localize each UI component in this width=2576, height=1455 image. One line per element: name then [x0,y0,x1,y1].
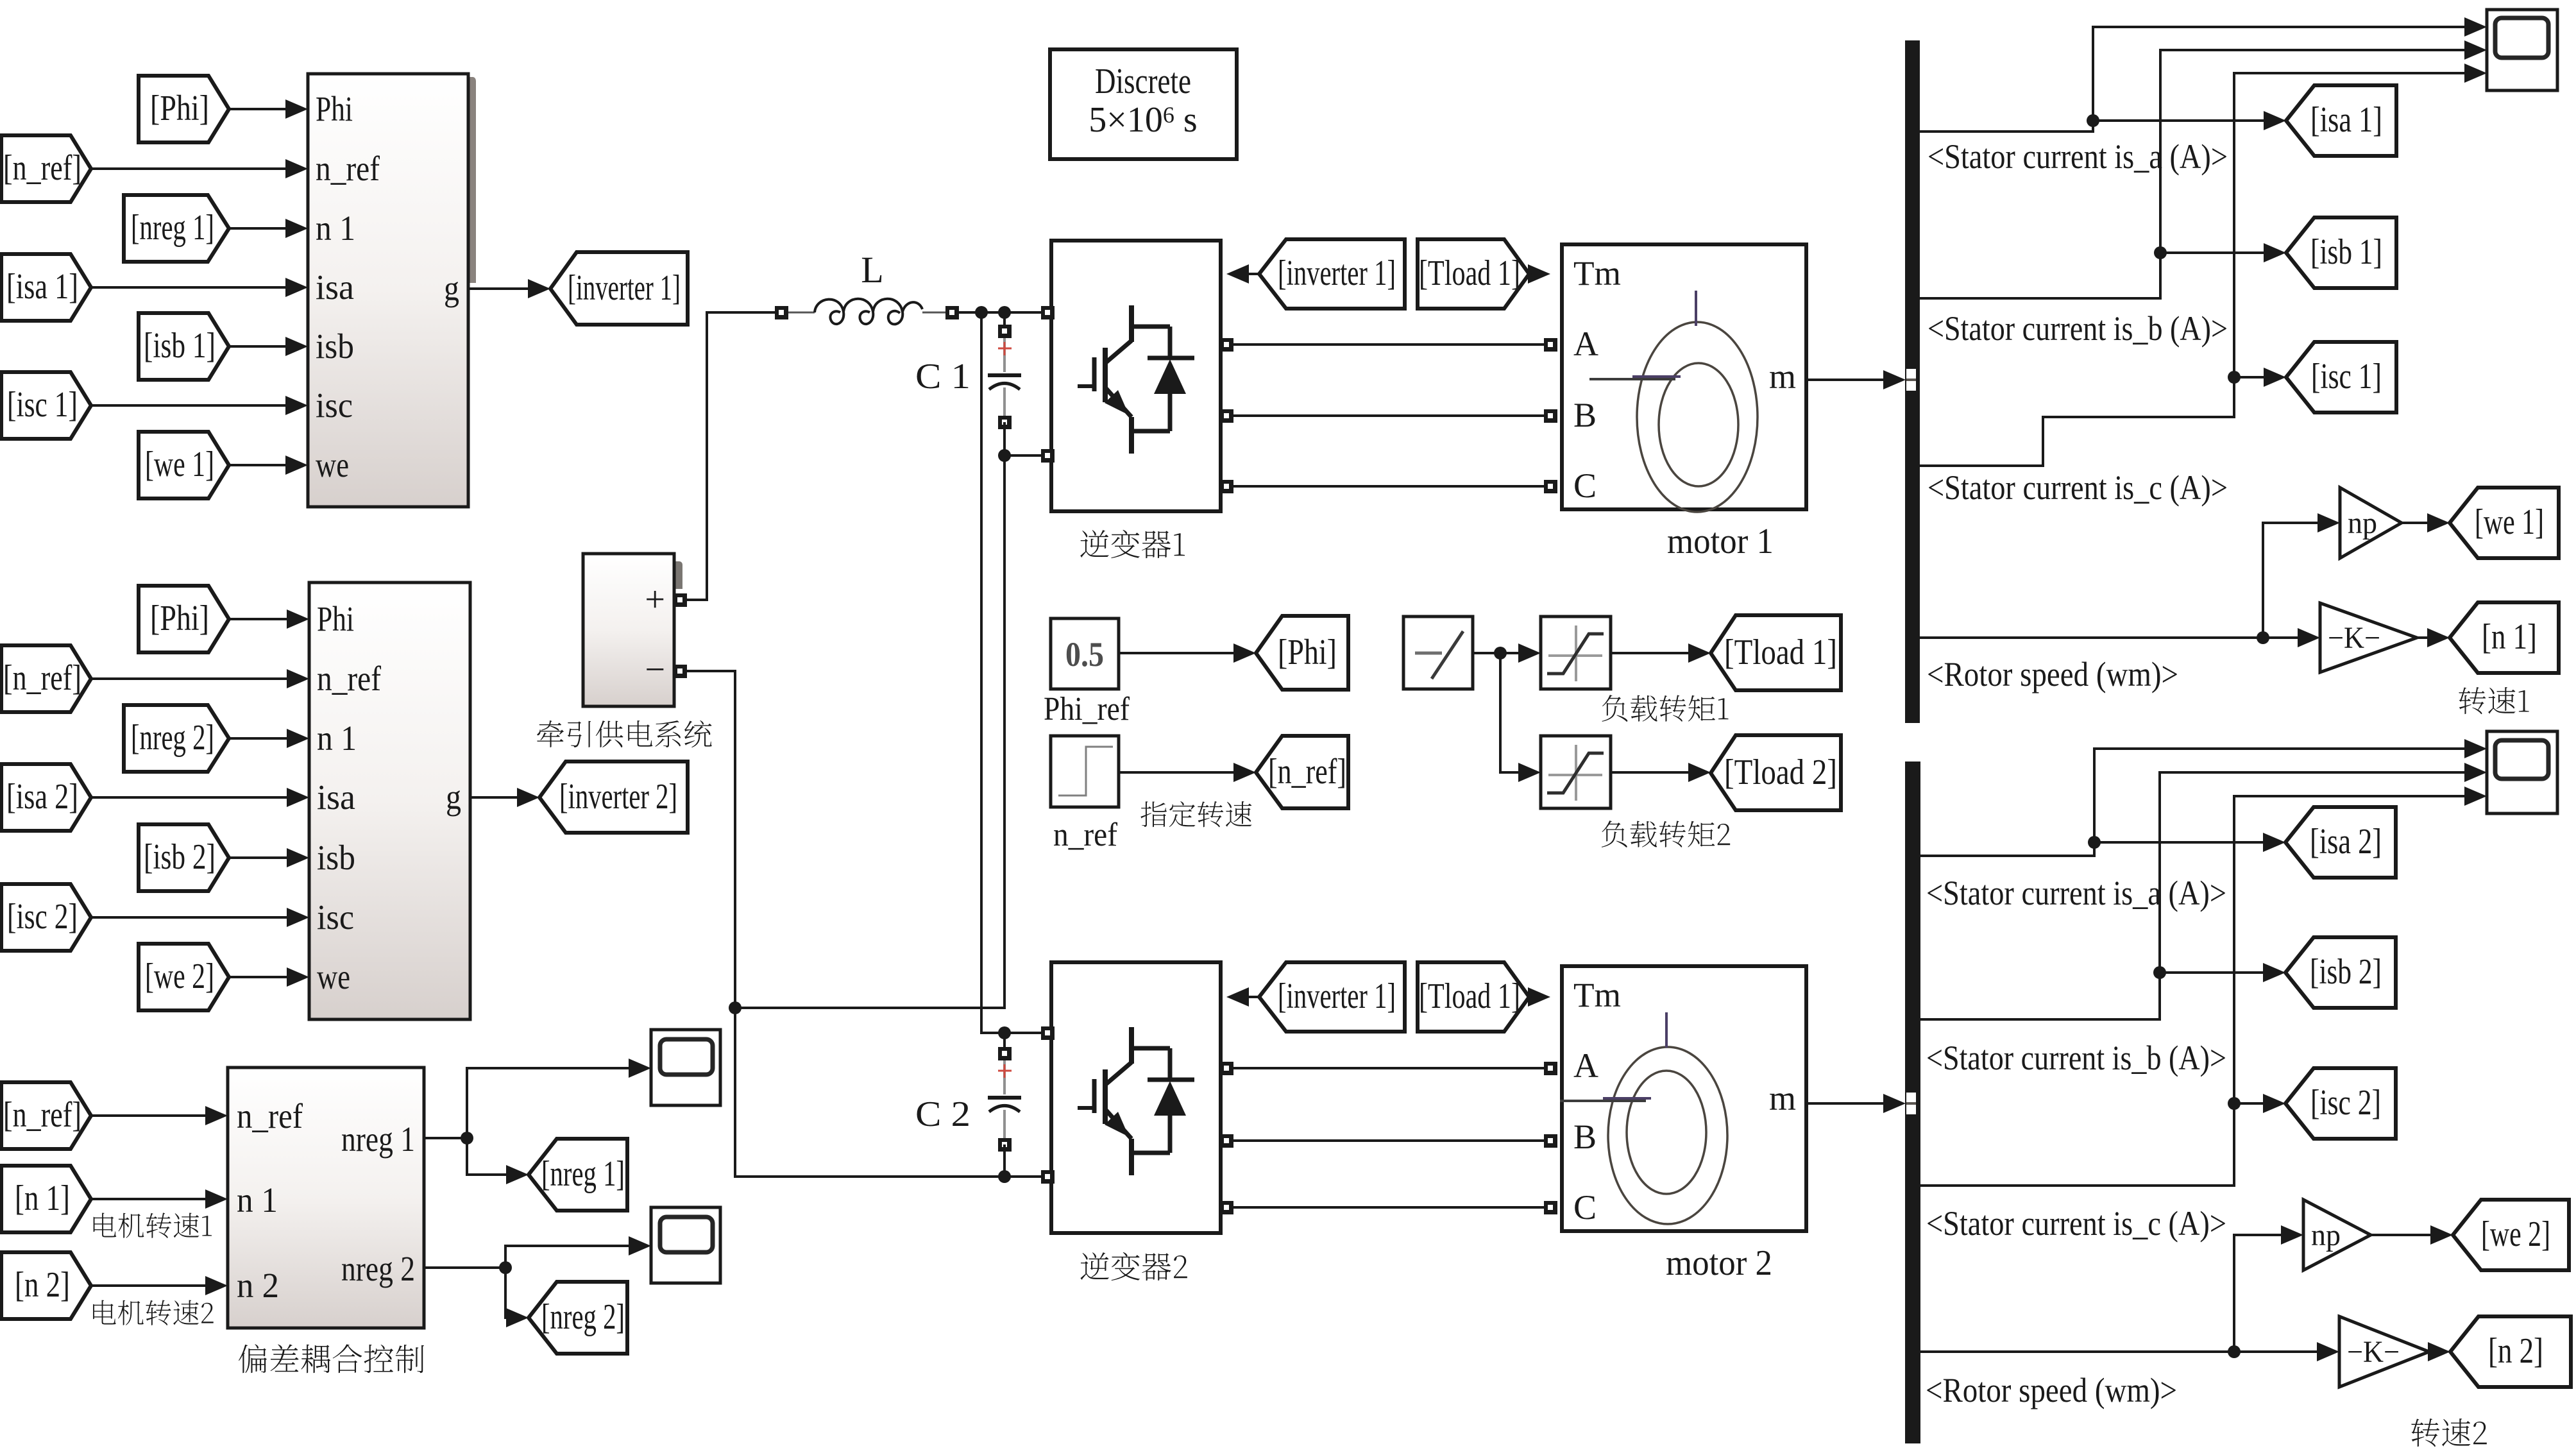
svg-text:n 2: n 2 [237,1266,279,1305]
svg-text:[isa 1]: [isa 1] [6,267,78,307]
svg-text:[isb 1]: [isb 1] [2310,232,2382,272]
svg-text:motor 2: motor 2 [1666,1243,1772,1283]
svg-text:5×106 s: 5×106 s [1089,100,1197,140]
svg-text:n_ref: n_ref [316,149,380,188]
svg-text:n_ref: n_ref [317,659,382,698]
svg-text:we: we [317,957,350,996]
svg-text:isb: isb [317,838,355,877]
svg-text:Phi: Phi [316,89,353,128]
svg-text:+: + [645,580,665,620]
svg-text:nreg 1: nreg 1 [341,1119,415,1159]
svg-text:Discrete: Discrete [1095,62,1191,101]
svg-text:g: g [446,778,461,817]
svg-text:[isb 1]: [isb 1] [144,326,216,366]
svg-text:np: np [2348,506,2377,540]
svg-text:<Stator current is_a (A)>: <Stator current is_a (A)> [1926,874,2226,912]
svg-text:L: L [861,249,883,291]
svg-text:Phi_ref: Phi_ref [1044,691,1130,727]
svg-text:<Stator current is_c (A)>: <Stator current is_c (A)> [1928,468,2228,507]
svg-text:n_ref: n_ref [237,1096,303,1136]
svg-text:C 2: C 2 [915,1094,970,1134]
svg-text:we: we [316,445,349,484]
svg-text:[n 1]: [n 1] [15,1178,70,1218]
svg-text:[inverter 1]: [inverter 1] [568,268,681,308]
svg-text:−: − [645,650,665,690]
svg-text:[n 2]: [n 2] [2488,1331,2543,1371]
svg-text:[n_ref]: [n_ref] [1268,752,1346,792]
svg-text:[isa 1]: [isa 1] [2310,100,2382,140]
svg-text:<Stator current is_b (A)>: <Stator current is_b (A)> [1928,309,2228,348]
svg-text:isb: isb [316,327,354,366]
svg-text:0.5: 0.5 [1065,635,1104,674]
svg-text:[Phi]: [Phi] [150,89,209,128]
svg-text:[Tload 1]: [Tload 1] [1724,633,1837,672]
svg-text:isa: isa [317,778,355,817]
svg-text:n 1: n 1 [237,1180,278,1220]
svg-text:isc: isc [316,386,353,425]
svg-text:[nreg 2]: [nreg 2] [541,1297,625,1337]
svg-text:<Stator current is_a (A)>: <Stator current is_a (A)> [1928,137,2228,176]
svg-text:np: np [2311,1218,2341,1252]
svg-text:[isa 2]: [isa 2] [2310,822,2382,862]
svg-text:n_ref: n_ref [1053,817,1118,853]
svg-text:m: m [1769,1079,1796,1118]
svg-text:<Rotor speed (wm)>: <Rotor speed (wm)> [1927,655,2178,693]
svg-text:nreg 2: nreg 2 [341,1249,415,1288]
svg-text:[isc 1]: [isc 1] [2311,357,2382,396]
svg-text:[isc 2]: [isc 2] [7,897,78,937]
svg-text:[isb 2]: [isb 2] [144,837,216,877]
svg-text:−K−: −K− [2328,621,2380,655]
svg-text:B: B [1573,396,1597,434]
svg-text:[n_ref]: [n_ref] [3,658,81,698]
svg-text:A: A [1573,325,1598,363]
svg-text:motor 1: motor 1 [1667,522,1774,561]
svg-text:[isc 2]: [isc 2] [2310,1083,2381,1123]
svg-text:[n 2]: [n 2] [15,1265,70,1305]
svg-text:C: C [1573,1188,1597,1227]
svg-text:<Rotor speed (wm)>: <Rotor speed (wm)> [1926,1371,2177,1409]
svg-text:[Tload 1]: [Tload 1] [1419,253,1520,293]
svg-text:[inverter 1]: [inverter 1] [1278,976,1396,1016]
svg-text:Tm: Tm [1573,254,1621,293]
svg-text:isa: isa [316,268,354,307]
svg-text:[n_ref]: [n_ref] [3,1095,81,1135]
svg-text:[we 2]: [we 2] [145,957,214,996]
svg-text:[we 1]: [we 1] [2475,502,2544,542]
svg-text:m: m [1769,357,1796,396]
svg-text:[we 1]: [we 1] [145,445,214,484]
svg-text:isc: isc [317,898,354,937]
svg-text:<Stator current is_c (A)>: <Stator current is_c (A)> [1926,1204,2226,1243]
svg-text:[nreg 2]: [nreg 2] [131,718,214,758]
svg-text:C: C [1573,466,1597,505]
svg-text:<Stator current is_b (A)>: <Stator current is_b (A)> [1926,1039,2226,1077]
svg-text:[Phi]: [Phi] [1278,633,1337,672]
svg-text:[Tload 1]: [Tload 1] [1419,976,1520,1016]
svg-text:[nreg 1]: [nreg 1] [541,1154,625,1194]
svg-text:Phi: Phi [317,599,354,638]
svg-text:[Tload 2]: [Tload 2] [1724,753,1837,792]
svg-text:A: A [1573,1046,1598,1085]
svg-text:g: g [444,269,459,308]
svg-text:[n_ref]: [n_ref] [3,148,81,188]
svg-text:[inverter 2]: [inverter 2] [559,777,677,817]
svg-text:[inverter 1]: [inverter 1] [1278,253,1396,293]
svg-text:[nreg 1]: [nreg 1] [131,208,214,248]
svg-text:[n 1]: [n 1] [2482,617,2537,657]
svg-text:B: B [1573,1118,1597,1156]
svg-text:C 1: C 1 [915,357,970,396]
svg-text:n 1: n 1 [316,208,355,248]
svg-text:[isc 1]: [isc 1] [7,385,78,425]
svg-text:[we 2]: [we 2] [2481,1214,2550,1254]
svg-text:[isb 2]: [isb 2] [2310,952,2382,992]
svg-text:[Phi]: [Phi] [150,599,209,638]
svg-text:[isa 2]: [isa 2] [6,777,78,817]
svg-text:n 1: n 1 [317,719,357,758]
svg-text:Tm: Tm [1573,976,1621,1014]
svg-text:−K−: −K− [2347,1335,2400,1369]
